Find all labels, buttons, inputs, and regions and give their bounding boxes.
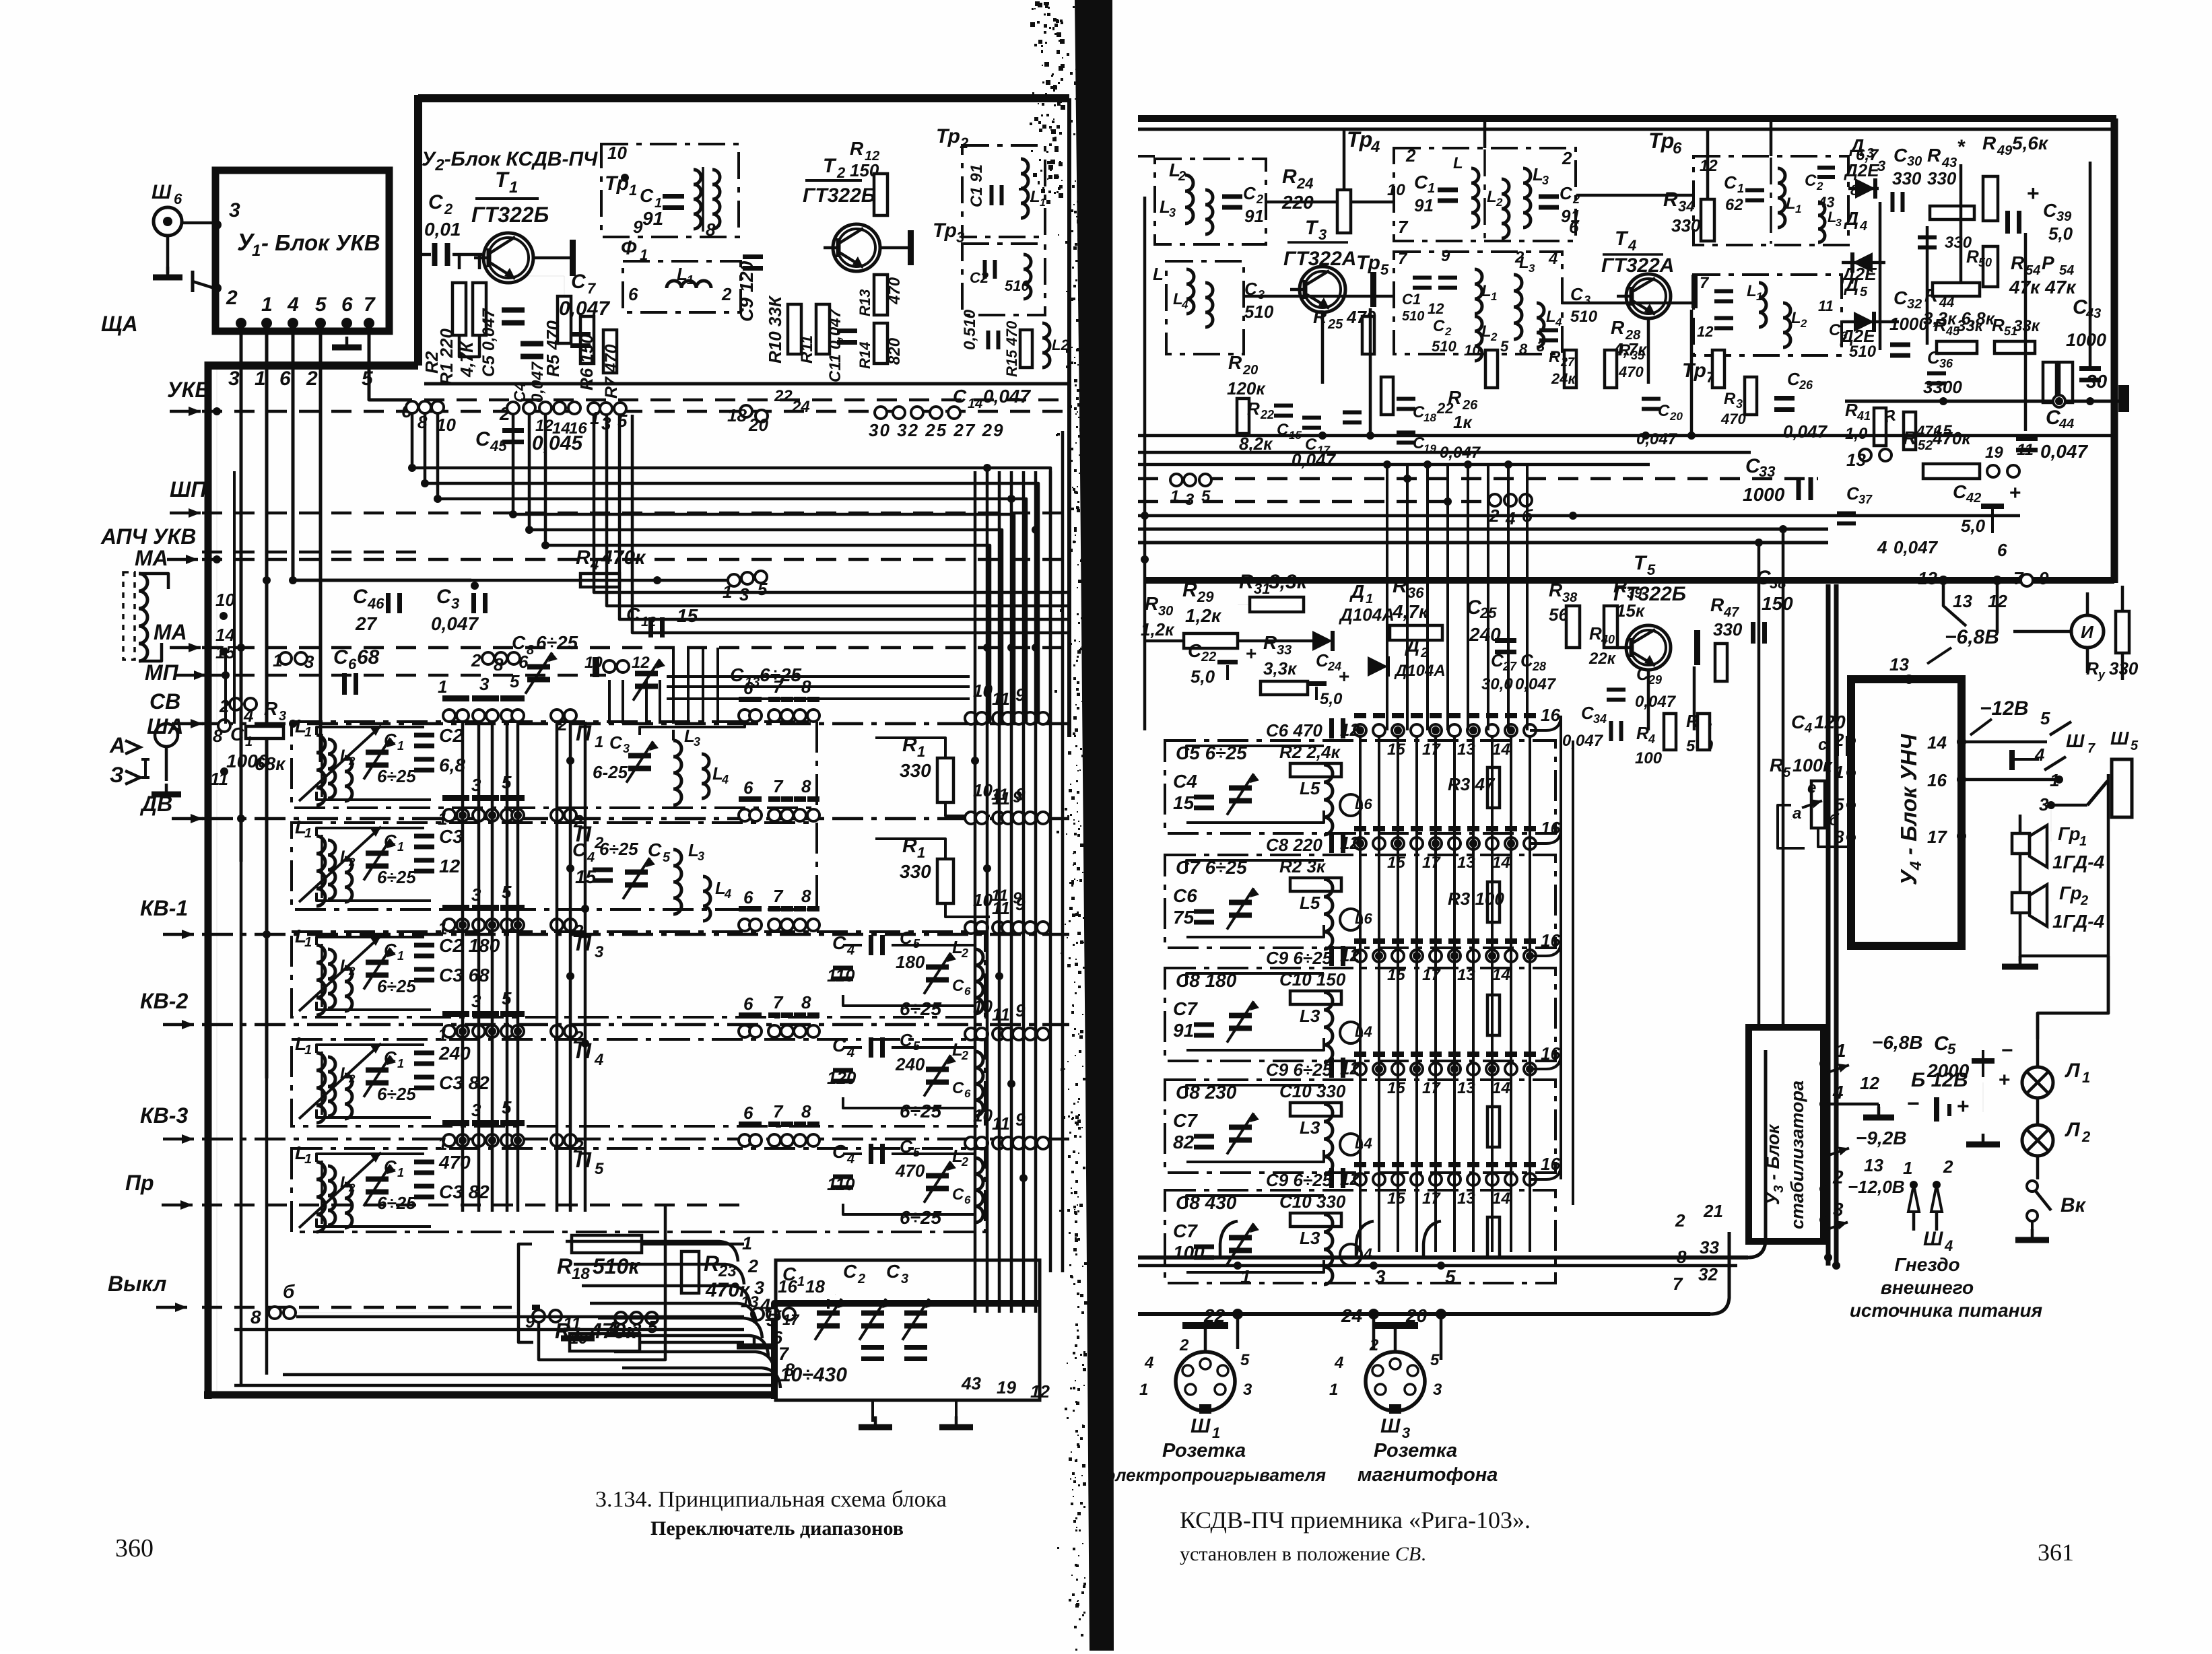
- inductor L1 Tp1: [694, 170, 701, 229]
- contact row right page 2: [1354, 826, 1366, 831]
- svg-text:1: 1: [252, 242, 261, 260]
- svg-text:4: 4: [1648, 732, 1655, 746]
- contact row bottom 1 3 5: [615, 1312, 627, 1324]
- trimmer 1: [1229, 786, 1252, 791]
- wire right page border inner: [1826, 584, 1831, 1266]
- transistor T4: [1626, 274, 1671, 318]
- collector plate T5: [1694, 630, 1700, 665]
- svg-text:3: 3: [451, 595, 459, 612]
- junction dots right page: [1356, 726, 1364, 734]
- svg-text:С: С: [1953, 481, 1967, 502]
- svg-text:2: 2: [306, 368, 318, 390]
- svg-text:+: +: [1246, 643, 1256, 664]
- inductor L3 R1: [1818, 202, 1825, 242]
- svg-text:+: +: [1339, 666, 1349, 687]
- svg-text:100: 100: [1635, 749, 1663, 767]
- svg-text:С: С: [640, 185, 654, 206]
- wire П5 inner: [316, 1154, 424, 1162]
- wire fanout: [412, 413, 1050, 724]
- inductor L2 П4: [345, 1074, 352, 1119]
- svg-text:6÷25: 6÷25: [900, 1101, 942, 1122]
- collector plate T2: [908, 230, 914, 265]
- wire left long verticals: [216, 366, 217, 1395]
- connector Ш3: [1366, 1352, 1425, 1411]
- tuning arrow L1 П2: [299, 827, 381, 902]
- svg-text:8: 8: [494, 654, 504, 675]
- svg-text:Ш: Ш: [2110, 728, 2129, 749]
- capacitor C4 0,047: [521, 341, 543, 347]
- resistor R23 470k: [681, 1251, 699, 1293]
- svg-text:7: 7: [1673, 1274, 1683, 1294]
- book gutter shadow: [1075, 0, 1114, 1651]
- speaker Гр1: [2012, 833, 2030, 854]
- svg-text:L: L: [1519, 254, 1529, 272]
- svg-text:С1 91: С1 91: [968, 164, 986, 207]
- svg-text:С1: С1: [1402, 291, 1421, 308]
- svg-text:+: +: [2009, 482, 2021, 504]
- svg-text:С: С: [384, 940, 397, 960]
- svg-text:С3: С3: [439, 826, 463, 847]
- svg-text:13: 13: [1953, 591, 1972, 611]
- svg-text:2: 2: [348, 965, 356, 977]
- svg-text:6: 6: [743, 994, 753, 1014]
- svg-text:15: 15: [1173, 792, 1195, 813]
- transformer box M1: [1394, 148, 1576, 241]
- inductor L4 П1: [702, 754, 709, 798]
- wire П1 right: [640, 722, 745, 735]
- svg-text:С6 470: С6 470: [1266, 720, 1322, 740]
- inductor L2 П3: [345, 967, 352, 1011]
- meter И: [2071, 615, 2104, 648]
- wire R4 bus: [471, 579, 744, 582]
- svg-text:8: 8: [801, 1101, 811, 1122]
- inductor L2 M3: [1475, 316, 1482, 361]
- svg-text:33: 33: [1759, 463, 1775, 480]
- svg-text:14: 14: [1492, 1079, 1510, 1097]
- svg-text:33к: 33к: [1957, 317, 1984, 335]
- resistor R6 150: [580, 316, 594, 364]
- inductor L5 2: [1324, 879, 1333, 949]
- wire КВ-3 dash-dot bus: [202, 1138, 1069, 1141]
- svg-text:3: 3: [304, 652, 314, 672]
- svg-text:16: 16: [778, 1276, 797, 1297]
- svg-text:6÷25: 6÷25: [377, 1193, 416, 1213]
- svg-text:9: 9: [2039, 568, 2049, 588]
- contact row 1 3 5: [588, 403, 600, 415]
- svg-text:1: 1: [397, 1166, 404, 1179]
- inductor L3 M3: [1514, 275, 1522, 339]
- svg-text:С6: С6: [1173, 885, 1197, 906]
- svg-text:2: 2: [348, 755, 356, 767]
- svg-text:С: С: [333, 646, 349, 668]
- block У4 Блок УНЧ: [1851, 679, 1962, 946]
- wire block 2: [1186, 860, 1324, 871]
- svg-text:R: R: [1934, 315, 1947, 335]
- svg-text:С: С: [730, 664, 744, 685]
- svg-text:−12В: −12В: [1980, 697, 2029, 720]
- contact row bottom 9 11: [533, 1310, 545, 1322]
- svg-text:Д104А: Д104А: [1394, 662, 1446, 680]
- svg-text:7: 7: [773, 1101, 784, 1122]
- svg-text:22: 22: [1436, 400, 1454, 417]
- svg-text:С: С: [475, 428, 491, 450]
- svg-text:R: R: [1549, 580, 1563, 600]
- svg-text:R: R: [1710, 594, 1724, 615]
- wire right page vertical bundle: [1359, 736, 1362, 1252]
- svg-text:6÷25: 6÷25: [377, 976, 416, 996]
- wire КВ-2 dash-dot bus: [202, 1023, 1069, 1027]
- transistor T5: [1626, 625, 1671, 670]
- svg-text:Тр: Тр: [1347, 127, 1372, 151]
- svg-text:МА: МА: [135, 546, 168, 570]
- resistor R15 470: [1020, 330, 1032, 368]
- wire block 1: [1186, 746, 1324, 757]
- svg-text:2: 2: [2080, 893, 2088, 908]
- svg-text:14: 14: [1492, 854, 1510, 872]
- transistor T2: [833, 224, 880, 271]
- svg-text:L: L: [1487, 188, 1497, 206]
- svg-text:2: 2: [747, 1256, 758, 1276]
- svg-text:470: 470: [1720, 411, 1746, 427]
- svg-text:13: 13: [1918, 568, 1937, 588]
- svg-text:Тр: Тр: [1648, 129, 1674, 153]
- switch row far right 4: [965, 1028, 977, 1040]
- svg-text:С: С: [1658, 402, 1670, 420]
- svg-text:5: 5: [1380, 261, 1389, 278]
- svg-text:З: З: [110, 763, 124, 787]
- svg-text:1ГД-4: 1ГД-4: [2052, 911, 2105, 932]
- svg-text:б: б: [283, 1281, 295, 1302]
- svg-text:МП: МП: [145, 660, 179, 685]
- transistor T1: [483, 233, 533, 283]
- inductor L1 M1: [1471, 168, 1479, 228]
- wire block 5: [1186, 1196, 1324, 1206]
- svg-text:1000: 1000: [1889, 314, 1929, 334]
- wire СВ dash-dot bus: [202, 722, 1069, 726]
- svg-text:5: 5: [362, 368, 374, 390]
- svg-text:7: 7: [773, 992, 784, 1012]
- capacitor group П1: [414, 733, 434, 738]
- svg-text:15: 15: [1387, 854, 1405, 872]
- svg-text:−6,8В: −6,8В: [1872, 1032, 1923, 1053]
- resistor R27 24k: [1564, 350, 1576, 388]
- switch box П4: [292, 1039, 985, 1126]
- svg-text:8: 8: [213, 726, 223, 746]
- transformer Tp3 box: [962, 244, 1045, 315]
- svg-text:Ш: Ш: [1380, 1415, 1401, 1437]
- svg-text:6÷25: 6÷25: [536, 632, 578, 653]
- svg-text:1: 1: [1903, 1158, 1912, 1178]
- svg-text:1: 1: [917, 844, 925, 861]
- svg-text:1: 1: [1491, 290, 1497, 303]
- svg-text:5: 5: [1201, 487, 1211, 506]
- wire ШП dashed bus: [202, 512, 1069, 515]
- svg-text:Тр: Тр: [1682, 359, 1706, 382]
- tuned box 2: [1165, 855, 1555, 948]
- switch box П1: [292, 722, 817, 808]
- resistor R3 2: [1487, 882, 1500, 922]
- inductor L2 120: [975, 1052, 983, 1116]
- svg-text:20: 20: [1669, 410, 1683, 423]
- svg-text:СВ: СВ: [149, 689, 180, 714]
- svg-text:С: С: [953, 386, 967, 407]
- ground bottom1: [576, 1328, 580, 1338]
- svg-text:С3 82: С3 82: [439, 1181, 490, 1202]
- svg-text:1: 1: [1040, 197, 1046, 209]
- resistor Rу 330: [2116, 611, 2129, 653]
- wire ДВ dash-dot bus: [202, 817, 1069, 821]
- contact row right page 3: [1354, 938, 1366, 944]
- inductor L6 2: [1340, 909, 1362, 930]
- wire bottom bus 2: [1138, 1312, 1710, 1316]
- resistor R5 470: [558, 296, 571, 343]
- svg-text:L5: L5: [1300, 778, 1320, 798]
- У4 pins right: [1957, 737, 1966, 747]
- svg-text:62: 62: [1725, 196, 1743, 214]
- svg-text:3: 3: [1375, 1266, 1386, 1287]
- svg-text:С: С: [436, 586, 452, 608]
- svg-text:0,047: 0,047: [1515, 675, 1557, 693]
- svg-text:1,2к: 1,2к: [1185, 605, 1222, 626]
- pin 3 of U1: [212, 220, 222, 230]
- transformer box TL2: [1166, 261, 1244, 354]
- capacitor C2 91 TL1: [1222, 195, 1242, 199]
- svg-text:С7: С7: [1173, 998, 1198, 1019]
- svg-text:24: 24: [1296, 175, 1313, 192]
- caps R2: [1714, 289, 1733, 294]
- wire down from 13: [1943, 580, 1966, 626]
- svg-text:17: 17: [782, 1311, 800, 1328]
- svg-text:6÷25: 6÷25: [900, 998, 942, 1019]
- wire meter: [2086, 648, 2089, 673]
- svg-text:Т: Т: [1305, 217, 1319, 239]
- filter Ф1 box: [623, 261, 741, 312]
- svg-text:15: 15: [677, 605, 698, 626]
- svg-text:L: L: [1030, 188, 1040, 206]
- ground Вк: [2031, 1221, 2034, 1236]
- svg-text:3: 3: [1529, 262, 1535, 275]
- svg-text:R: R: [1182, 579, 1197, 601]
- svg-text:1: 1: [1240, 1266, 1251, 1287]
- svg-text:электропроигрывателя: электропроигрывателя: [1106, 1465, 1326, 1485]
- ground below A: [165, 784, 168, 794]
- svg-text:0,045: 0,045: [532, 432, 583, 454]
- svg-text:С: С: [843, 1261, 857, 1282]
- svg-text:11: 11: [992, 788, 1010, 808]
- svg-text:4: 4: [1944, 1237, 1953, 1254]
- wire cblock: [843, 1152, 862, 1155]
- svg-text:11: 11: [210, 769, 228, 789]
- svg-text:0,047: 0,047: [1562, 732, 1604, 750]
- svg-text:26: 26: [1799, 378, 1813, 392]
- svg-text:1000: 1000: [2066, 330, 2106, 350]
- svg-text:330: 330: [1927, 168, 1957, 188]
- svg-text:ГТ322Б: ГТ322Б: [803, 184, 875, 207]
- svg-text:0,047: 0,047: [1783, 421, 1828, 442]
- switch row 4: [442, 1011, 456, 1017]
- svg-text:2: 2: [1405, 145, 1416, 166]
- svg-text:R: R: [557, 1254, 572, 1278]
- svg-text:6-25: 6-25: [593, 762, 628, 782]
- svg-text:3: 3: [1169, 206, 1176, 219]
- ground battery: [1982, 1082, 1984, 1112]
- svg-text:22: 22: [1260, 408, 1274, 421]
- connector Ш1: [1176, 1352, 1235, 1411]
- inductor L3 M2: [1523, 168, 1531, 228]
- svg-text:4: 4: [1144, 1354, 1153, 1372]
- svg-text:4: 4: [287, 294, 299, 316]
- svg-text:2: 2: [2081, 1128, 2091, 1145]
- resistor R18 510k: [572, 1235, 642, 1253]
- svg-text:б: б: [1829, 811, 1840, 829]
- svg-text:16: 16: [1541, 818, 1560, 838]
- wire R4 470k bus: [202, 646, 1069, 650]
- tuning arrow L1 П1: [299, 726, 381, 801]
- svg-text:С: С: [384, 730, 397, 750]
- svg-text:6÷25: 6÷25: [377, 766, 416, 786]
- svg-text:40: 40: [1601, 633, 1615, 646]
- svg-text:R: R: [1263, 632, 1277, 653]
- svg-text:С: С: [832, 932, 846, 953]
- svg-text:С9 6÷25: С9 6÷25: [1266, 1170, 1333, 1190]
- svg-text:6÷25: 6÷25: [377, 1084, 416, 1104]
- switch row far right 3: [965, 922, 977, 934]
- svg-text:Тр: Тр: [933, 219, 957, 242]
- svg-text:1ГД-4: 1ГД-4: [2052, 852, 2105, 872]
- svg-text:3: 3: [698, 850, 704, 863]
- transformer box R2: [1694, 275, 1842, 355]
- svg-text:R: R: [1247, 399, 1260, 419]
- svg-text:L: L: [677, 264, 688, 284]
- svg-text:1: 1: [397, 1057, 404, 1070]
- wire drops mid: [672, 648, 675, 724]
- svg-text:2: 2: [1179, 1336, 1189, 1354]
- svg-text:а: а: [1792, 804, 1801, 823]
- svg-text:31: 31: [1254, 580, 1270, 597]
- svg-text:1: 1: [1795, 203, 1801, 215]
- svg-text:7: 7: [364, 294, 376, 316]
- svg-text:R: R: [1992, 315, 2005, 335]
- wire right verticals outer: [1049, 471, 1052, 1272]
- wire speakers: [2019, 815, 2022, 833]
- inductor L3 П1: [673, 740, 681, 805]
- svg-text:510: 510: [1402, 309, 1424, 324]
- contact 8: [218, 720, 230, 732]
- svg-text:6÷25: 6÷25: [900, 1207, 942, 1228]
- resistor R1 330 П2: [937, 859, 953, 903]
- inductor L6 5: [1340, 1244, 1362, 1266]
- svg-text:С: С: [1433, 317, 1445, 335]
- inductor L2 110: [975, 949, 983, 1014]
- svg-text:L3: L3: [1300, 1117, 1320, 1138]
- inductor L2 R2: [1783, 303, 1790, 347]
- switch row far right 5: [965, 1137, 977, 1149]
- svg-text:11: 11: [992, 898, 1010, 918]
- capacitor top 1: [1329, 718, 1334, 738]
- svg-text:52: 52: [1918, 438, 1933, 453]
- resistor R7 470: [603, 330, 617, 373]
- svg-text:А: А: [109, 733, 125, 757]
- contact 2 8 6: [482, 652, 494, 664]
- svg-text:Ш: Ш: [2066, 730, 2085, 751]
- svg-text:8: 8: [1519, 341, 1528, 357]
- svg-text:150: 150: [1762, 593, 1793, 614]
- svg-text:L: L: [1153, 264, 1164, 284]
- svg-text:R: R: [1393, 575, 1407, 597]
- wire П2 inner: [316, 828, 424, 836]
- speaker Гр2: [2012, 893, 2030, 913]
- wire П4 inner: [316, 1045, 424, 1053]
- svg-text:5: 5: [595, 1160, 604, 1178]
- inductor L2 Tp3: [1042, 323, 1050, 368]
- svg-text:6: 6: [743, 887, 753, 907]
- svg-text:5,0: 5,0: [1320, 690, 1343, 708]
- svg-text:С: С: [952, 1185, 964, 1204]
- wire Ш5 down: [2050, 805, 2052, 841]
- resistor R10 33K: [788, 304, 801, 354]
- svg-text:12: 12: [1697, 323, 1714, 340]
- inductor L1 Tp3: [1024, 254, 1031, 299]
- switch Вк: [2027, 1181, 2038, 1192]
- svg-text:330: 330: [1671, 215, 1701, 236]
- svg-text:R: R: [1228, 352, 1242, 373]
- svg-text:4: 4: [1832, 1082, 1844, 1103]
- svg-text:3: 3: [1402, 1424, 1410, 1441]
- svg-text:6: 6: [174, 191, 182, 207]
- wire din drops: [1220, 1221, 1238, 1257]
- transistor T3: [1300, 267, 1345, 312]
- svg-text:18: 18: [727, 405, 747, 425]
- svg-text:19: 19: [1985, 444, 2003, 462]
- svg-text:1: 1: [509, 178, 518, 197]
- svg-text:Ш: Ш: [1191, 1415, 1211, 1437]
- block У3 Блок стабилизатора: [1749, 1027, 1823, 1241]
- svg-text:8: 8: [801, 992, 811, 1012]
- svg-text:4: 4: [243, 705, 254, 726]
- svg-text:Л: Л: [2065, 1119, 2081, 1141]
- svg-text:4: 4: [1370, 138, 1380, 156]
- svg-text:3: 3: [1537, 338, 1545, 355]
- svg-text:19: 19: [997, 1377, 1016, 1398]
- svg-text:28: 28: [1532, 660, 1546, 673]
- terminal 30 stub: [2118, 385, 2129, 412]
- svg-text:5: 5: [1647, 561, 1656, 578]
- svg-text:240: 240: [438, 1043, 471, 1064]
- svg-text:С: С: [1414, 172, 1428, 193]
- svg-text:16: 16: [1927, 770, 1947, 790]
- capacitor C18 22: [1397, 397, 1415, 401]
- svg-text:13: 13: [1889, 654, 1909, 675]
- junction dots left page: [459, 811, 467, 819]
- contacts 2 4 6 right page: [1489, 494, 1501, 506]
- switch row right 3: [739, 906, 751, 911]
- svg-text:R: R: [1619, 341, 1631, 359]
- block U1 Блок УКВ: [215, 170, 389, 331]
- svg-text:1: 1: [2082, 1069, 2090, 1086]
- svg-text:54: 54: [2059, 263, 2074, 278]
- svg-text:17: 17: [1422, 854, 1441, 872]
- svg-text:82: 82: [1173, 1132, 1195, 1152]
- svg-text:R11: R11: [798, 335, 816, 364]
- trimmer 5: [1229, 1235, 1252, 1241]
- svg-text:3: 3: [279, 709, 286, 724]
- svg-text:0,047: 0,047: [2040, 441, 2088, 462]
- svg-text:41: 41: [1856, 409, 1871, 423]
- wire lamp rail: [2038, 956, 2108, 1039]
- svg-text:Гр: Гр: [2059, 883, 2082, 903]
- svg-text:−: −: [2001, 1039, 2013, 1062]
- capacitor C20 0,047: [1642, 397, 1661, 401]
